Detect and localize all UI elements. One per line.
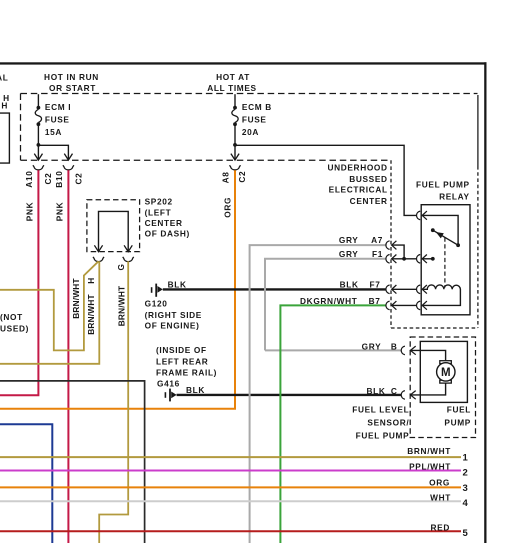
ground G120 (152, 284, 163, 297)
svg-text:ECM I: ECM I (45, 102, 71, 112)
svg-text:BLK: BLK (168, 279, 187, 289)
relay internal: pin30 to switch common (422, 215, 458, 245)
wire fuse ECM B to relay (235, 145, 416, 215)
label FUEL PUMP (right) (444, 405, 471, 428)
connector at UBEC A7 (386, 241, 397, 250)
arrow out A8 (231, 154, 239, 160)
svg-text:WHT: WHT (430, 492, 451, 502)
svg-text:C2: C2 (43, 173, 53, 185)
svg-text:FUSE: FUSE (242, 115, 267, 125)
svg-text:HOT IN RUN: HOT IN RUN (44, 72, 99, 82)
bus wire 4 WHT (0, 500, 461, 502)
switch contact dot (431, 228, 435, 232)
svg-text:H: H (1, 101, 8, 111)
relay box (421, 205, 470, 315)
svg-text:1: 1 (463, 452, 469, 463)
connector cup (G) (123, 257, 134, 262)
label (NOT USED) (0, 312, 29, 333)
svg-text:FUEL PUMP: FUEL PUMP (416, 180, 470, 190)
svg-text:BLK: BLK (340, 280, 359, 290)
svg-text:OR START: OR START (49, 83, 96, 93)
svg-text:RED: RED (431, 523, 450, 533)
wire GRY F1 to fuel pump B (265, 349, 401, 351)
svg-text:GRY: GRY (339, 249, 359, 259)
svg-text:USED): USED) (0, 323, 29, 333)
label HOT AT ALL TIMES (207, 72, 257, 93)
svg-text:(NOT: (NOT (0, 312, 23, 322)
ground G416 (165, 389, 176, 402)
wire GRY A7 (250, 245, 386, 543)
svg-text:PNK: PNK (24, 202, 34, 221)
wire PNK A10 (0, 170, 38, 395)
svg-text:PPL/WHT: PPL/WHT (409, 462, 451, 472)
svg-text:G416: G416 (157, 379, 180, 389)
fuse output branch wire (38, 145, 68, 159)
svg-text:ECM B: ECM B (242, 102, 272, 112)
svg-text:(RIGHT SIDE: (RIGHT SIDE (145, 310, 202, 320)
svg-text:FUEL: FUEL (447, 405, 471, 415)
relay internal dashed link (444, 238, 446, 288)
wire BLK G120 to F7 (163, 288, 386, 290)
svg-text:FUEL LEVEL: FUEL LEVEL (352, 404, 409, 414)
svg-text:BRN/WHT: BRN/WHT (117, 286, 127, 327)
fuel pump dashed box (410, 337, 475, 438)
FUEL PUMP RELAY label (416, 180, 470, 202)
svg-text:BUSSED: BUSSED (349, 174, 387, 184)
wire BRN/WHT from left to SP202 pin H (0, 261, 99, 350)
svg-text:M: M (441, 367, 451, 379)
wire BLK bottom left (0, 381, 145, 543)
junction dot A7/F1 (402, 257, 406, 261)
svg-text:20A: 20A (242, 127, 259, 137)
connector cup C2 (B10) (63, 165, 74, 170)
arrow out A10 (34, 154, 42, 160)
arrow splice left leg (94, 245, 102, 251)
wire B7 inside UBEC (392, 304, 417, 306)
connector at fuel pump B (401, 346, 416, 355)
wire label GRY F1 (339, 249, 383, 259)
svg-text:ELECTRICAL: ELECTRICAL (329, 185, 388, 195)
svg-text:C2: C2 (237, 171, 247, 183)
wire PNK B10 (67, 170, 69, 543)
svg-text:GRY: GRY (362, 341, 382, 351)
switch common dot (456, 243, 460, 247)
wire BRN/WHT from SP202 pin G down to bottom (99, 261, 128, 543)
connector cup C2 (A8) (230, 165, 241, 170)
wire label BLK C (366, 386, 397, 396)
connector at relay pin 30 (416, 211, 426, 220)
wire F7 inside UBEC (392, 288, 417, 290)
fuse ECM B 20A (232, 94, 272, 159)
UNDERHOOD BUSSED ELECTRICAL CENTER label (327, 163, 387, 206)
svg-text:BLK: BLK (186, 385, 205, 395)
connector at UBEC F7 (386, 285, 397, 294)
label SP202 (LEFT CENTER OF DASH) (145, 197, 190, 239)
arrow splice right leg (124, 245, 132, 251)
wire F1 inside UBEC (392, 258, 417, 260)
connector cup C2 (A10) (33, 165, 44, 170)
wire label DKGRN/WHT B7 (300, 296, 380, 306)
connector at relay coil - (416, 301, 426, 310)
wire DKGRN/WHT B7 (280, 305, 386, 543)
fuse ECM I 15A (35, 94, 71, 159)
svg-text:BRN/WHT: BRN/WHT (407, 446, 451, 456)
wire GRY F1 (265, 259, 386, 351)
svg-text:G120: G120 (145, 299, 168, 309)
bus wire 2 PPL/WHT (0, 470, 461, 472)
svg-text:G: G (116, 263, 126, 270)
bus wire 1 BRN/WHT (0, 456, 461, 458)
fuel pump inner solid box (420, 341, 467, 402)
svg-text:CENTER: CENTER (350, 196, 388, 206)
wire BRN/WHT from SP202 pin H down to left (0, 261, 99, 364)
motor M (437, 361, 455, 383)
svg-text:B10: B10 (54, 171, 64, 188)
truncated component box at left edge (0, 113, 9, 163)
connector at UBEC F1 (386, 255, 397, 264)
connector at relay coil + (416, 285, 426, 294)
svg-text:C: C (391, 386, 398, 396)
svg-text:F7: F7 (370, 280, 381, 290)
UBEC / fuse block dashed outline (21, 94, 478, 329)
svg-text:B: B (391, 341, 398, 351)
svg-text:A10: A10 (24, 171, 34, 188)
svg-text:BLK: BLK (366, 386, 385, 396)
svg-text:H: H (86, 277, 96, 284)
svg-text:15A: 15A (45, 127, 62, 137)
svg-text:OF ENGINE): OF ENGINE) (145, 321, 200, 331)
wire label GRY A7 (339, 235, 383, 245)
svg-text:A8: A8 (221, 171, 231, 183)
svg-text:FUSE: FUSE (45, 115, 70, 125)
splice SP202 (99, 211, 129, 251)
svg-text:AL: AL (0, 72, 9, 82)
svg-text:ORG: ORG (222, 197, 232, 218)
svg-text:4: 4 (463, 498, 469, 509)
svg-text:ORG: ORG (429, 478, 450, 488)
wire BLK G416 to fuel pump C (177, 394, 401, 396)
svg-text:A7: A7 (371, 235, 383, 245)
svg-text:GRY: GRY (339, 235, 359, 245)
wire ORG A8 (0, 170, 235, 408)
page border top (0, 62, 487, 64)
label FUEL LEVEL SENSOR / FUEL PUMP (352, 404, 409, 440)
bus wire 5 RED (0, 530, 461, 532)
svg-text:SENSOR/: SENSOR/ (367, 417, 409, 427)
switch blade with arrow (433, 230, 458, 245)
splice SP202 dashed box (87, 200, 140, 252)
svg-text:(LEFT: (LEFT (145, 207, 172, 217)
connector cup (H) (93, 257, 104, 262)
svg-text:LEFT REAR: LEFT REAR (156, 356, 208, 366)
wire pump B internal (410, 350, 445, 360)
svg-text:BRN/WHT: BRN/WHT (71, 278, 81, 319)
svg-text:2: 2 (463, 468, 468, 479)
svg-text:OF DASH): OF DASH) (145, 229, 190, 239)
connector at relay pin 87 (416, 255, 426, 264)
svg-text:C2: C2 (73, 173, 83, 185)
svg-text:3: 3 (463, 483, 468, 494)
svg-text:FRAME RAIL): FRAME RAIL) (156, 367, 217, 377)
svg-text:B7: B7 (369, 296, 381, 306)
page border right (484, 62, 486, 543)
wire label BLK F7 (340, 280, 381, 290)
svg-text:PNK: PNK (55, 202, 65, 221)
svg-text:BRN/WHT: BRN/WHT (86, 294, 96, 335)
svg-text:FUEL PUMP: FUEL PUMP (356, 430, 410, 440)
connector at fuel pump C (401, 391, 416, 400)
svg-text:SP202: SP202 (145, 197, 173, 207)
connector at UBEC B7 (386, 301, 397, 310)
svg-text:ALL TIMES: ALL TIMES (207, 83, 257, 93)
wire pump C internal (410, 383, 445, 395)
pin 87 contact dot (431, 257, 435, 261)
label HOT IN RUN OR START (44, 72, 99, 93)
label G120 (RIGHT SIDE OF ENGINE) (145, 299, 202, 331)
svg-text:RELAY: RELAY (439, 192, 470, 202)
svg-text:5: 5 (463, 528, 469, 539)
svg-text:(INSIDE OF: (INSIDE OF (156, 345, 207, 355)
svg-text:UNDERHOOD: UNDERHOOD (327, 163, 387, 173)
svg-text:PUMP: PUMP (444, 418, 471, 428)
bus wire 3 ORG (0, 486, 461, 488)
svg-text:HOT AT: HOT AT (216, 72, 250, 82)
relay internal pin 87 wire (422, 258, 433, 260)
svg-text:DKGRN/WHT: DKGRN/WHT (300, 296, 357, 306)
svg-text:CENTER: CENTER (145, 218, 183, 228)
arrow out B10 (64, 154, 72, 160)
relay coil (422, 285, 460, 306)
wire label GRY B (362, 341, 398, 351)
wire BLUE bottom left (0, 424, 52, 543)
wire GRY A7 inside UBEC (392, 245, 404, 259)
svg-text:F1: F1 (372, 249, 383, 259)
label (INSIDE OF LEFT REAR FRAME RAIL) G416 (156, 345, 217, 388)
